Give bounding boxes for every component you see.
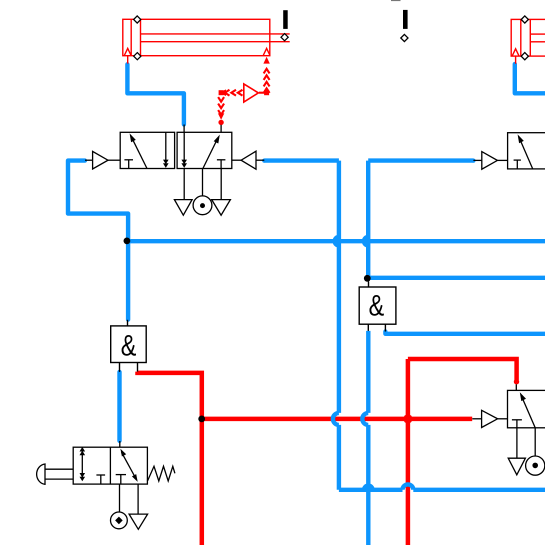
svg-text:&: & [121,329,137,362]
svg-text:&: & [369,289,385,322]
